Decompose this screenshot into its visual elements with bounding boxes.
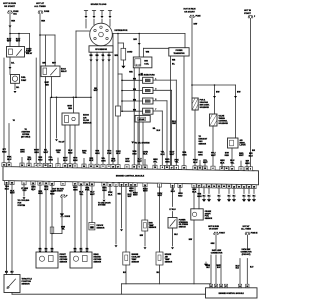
- svg-text:BLK: BLK: [203, 195, 206, 197]
- svg-text:RED: RED: [132, 153, 137, 155]
- air regulator: [228, 138, 239, 148]
- svg-text:W/B: W/B: [172, 60, 176, 62]
- svg-text:BRN: BRN: [73, 160, 78, 162]
- svg-text:WHT: WHT: [90, 194, 95, 196]
- svg-text:BLK: BLK: [253, 195, 256, 197]
- diode D1: [61, 198, 63, 214]
- svg-text:OR START: OR START: [184, 10, 195, 13]
- wire resistor to ECM: [117, 116, 119, 165]
- svg-text:WHT: WHT: [158, 195, 163, 197]
- svg-text:DIODE: DIODE: [65, 216, 71, 218]
- svg-text:BLK: BLK: [108, 194, 113, 196]
- svg-text:6: 6: [139, 167, 140, 169]
- fuse F4: [248, 16, 253, 18]
- svg-text:ENGINE CONTROL MODULE: ENGINE CONTROL MODULE: [116, 176, 145, 178]
- svg-text:W/B: W/B: [129, 72, 133, 74]
- svg-text:W/G: W/G: [45, 248, 48, 250]
- wire branch to relay switch side: [10, 33, 30, 35]
- knock sensor: [91, 185, 93, 222]
- coil output wires: [133, 68, 135, 166]
- svg-text:RED: RED: [178, 195, 183, 197]
- wire W/R rail from fuse F2 to ECM: [39, 14, 41, 164]
- wire B/W rail: [191, 18, 193, 98]
- svg-text:5: 5: [155, 99, 156, 101]
- svg-text:OR START: OR START: [4, 5, 16, 8]
- svg-text:50: 50: [238, 186, 240, 188]
- EGR solenoid output: [194, 110, 196, 166]
- heater resistor R2: [50, 227, 54, 234]
- distributor cap circle: [90, 23, 113, 46]
- ECM top connector pins: [2, 163, 6, 167]
- svg-text:BLU: BLU: [171, 191, 176, 193]
- svg-text:1: 1: [155, 78, 156, 80]
- svg-text:WHT: WHT: [239, 155, 244, 157]
- svg-text:BLK: BLK: [192, 191, 197, 193]
- svg-text:CPS SENSOR: CPS SENSOR: [95, 49, 107, 51]
- wire B/W bus to coil: [138, 34, 140, 58]
- svg-text:36: 36: [144, 167, 146, 169]
- svg-text:33: 33: [90, 166, 92, 168]
- MAF output wires: [64, 125, 66, 164]
- fuel injector 3: [143, 98, 153, 104]
- svg-text:PNK: PNK: [107, 153, 112, 155]
- wire to intake air temp sensor: [159, 187, 161, 252]
- svg-text:B/L: B/L: [11, 63, 15, 65]
- svg-text:YEL: YEL: [230, 163, 235, 165]
- IAC output wires: [137, 122, 139, 165]
- svg-text:TO A/T: TO A/T: [59, 141, 66, 144]
- svg-text:W/R: W/R: [41, 20, 45, 22]
- svg-text:BLU: BLU: [116, 153, 121, 155]
- svg-text:WHT: WHT: [7, 41, 12, 43]
- svg-text:BLU: BLU: [7, 159, 12, 161]
- wire BLK/WHT to coolant temp sensor: [125, 186, 127, 252]
- valve timing control solenoid: [210, 114, 218, 126]
- ECM bottom connector pins: [4, 181, 8, 185]
- branch to ECCS relay: [40, 34, 55, 36]
- svg-text:SPARK PLUGS: SPARK PLUGS: [91, 3, 107, 6]
- svg-text:WHT: WHT: [137, 161, 142, 163]
- svg-text:5: 5: [127, 167, 128, 169]
- svg-text:TRANSISTOR: TRANSISTOR: [174, 52, 186, 55]
- svg-text:ENGINE CONTROL MODULE: ENGINE CONTROL MODULE: [219, 293, 245, 295]
- data link wires to ECM2: [210, 255, 212, 284]
- svg-text:WHT: WHT: [16, 41, 21, 43]
- svg-text:SOLENOID: SOLENOID: [219, 123, 229, 125]
- svg-text:HOT IN RUN: HOT IN RUN: [183, 9, 196, 11]
- ground wires BLK below ECM: [203, 187, 205, 193]
- svg-text:B/W: B/W: [189, 239, 193, 241]
- svg-text:7: 7: [58, 165, 59, 167]
- svg-text:IGN: IGN: [144, 61, 148, 63]
- svg-text:8: 8: [63, 183, 64, 185]
- power transistor box: [169, 48, 189, 56]
- svg-text:WHT: WHT: [143, 191, 148, 193]
- svg-text:B/L: B/L: [172, 64, 175, 66]
- wire stub TO label: [8, 124, 10, 163]
- ECM2 top pins: [209, 284, 212, 288]
- svg-text:5: 5: [40, 165, 41, 167]
- svg-text:W/B: W/B: [95, 55, 99, 57]
- svg-text:59: 59: [83, 166, 85, 168]
- CPS output wires W/R W/B W/L W/G: [90, 52, 92, 164]
- svg-text:SOLENOID: SOLENOID: [200, 107, 210, 109]
- svg-text:RED: RED: [50, 193, 55, 195]
- svg-text:GRN: GRN: [211, 243, 215, 245]
- svg-text:BLU: BLU: [249, 155, 254, 157]
- svg-text:ORN: ORN: [20, 152, 25, 154]
- svg-text:WHT: WHT: [133, 195, 138, 197]
- svg-text:B/W: B/W: [133, 39, 137, 41]
- svg-text:RED: RED: [45, 84, 49, 86]
- svg-text:W/B: W/B: [146, 52, 150, 54]
- svg-text:6: 6: [109, 166, 110, 168]
- wire B/L relay to fuel pump: [9, 57, 11, 75]
- svg-text:B/L: B/L: [16, 87, 20, 89]
- spark plug 1: [84, 10, 87, 12]
- svg-text:3: 3: [250, 169, 251, 171]
- svg-text:WHT: WHT: [170, 154, 175, 156]
- GST wires to ECM2: [239, 259, 241, 285]
- shield ground arrow: [204, 262, 208, 266]
- camshaft position sensor box: [89, 46, 113, 52]
- svg-text:16: 16: [133, 167, 135, 169]
- svg-text:W/B: W/B: [51, 248, 54, 250]
- svg-text:SYSTEM: SYSTEM: [98, 205, 106, 207]
- svg-text:BLU: BLU: [11, 271, 14, 273]
- svg-text:GRN: GRN: [197, 196, 202, 198]
- svg-text:WHT: WHT: [52, 62, 57, 64]
- svg-text:RELAY: RELAY: [61, 70, 67, 73]
- svg-text:SENSOR: SENSOR: [149, 227, 157, 229]
- wire power transistor to coil: [144, 47, 169, 49]
- front heated oxygen sensor: [36, 252, 58, 268]
- svg-text:PUMP: PUMP: [21, 80, 27, 82]
- svg-text:ALL TIMES: ALL TIMES: [241, 227, 251, 230]
- power transistor outputs: [170, 56, 172, 166]
- svg-text:SENSOR: SENSOR: [60, 262, 68, 264]
- crankshaft position sensor: [193, 187, 195, 209]
- svg-text:SENSOR: SENSOR: [97, 227, 105, 229]
- svg-text:ORN: ORN: [101, 160, 106, 162]
- wire WHT/RED to mass air flow sensor: [72, 97, 74, 113]
- intake air temp sensor: [156, 252, 163, 265]
- wire rail A: [35, 58, 37, 164]
- svg-text:BLK: BLK: [218, 195, 221, 197]
- svg-text:BLK: BLK: [243, 195, 246, 197]
- svg-text:YEL: YEL: [56, 152, 61, 154]
- svg-text:COND: COND: [127, 52, 133, 54]
- svg-text:BLU: BLU: [63, 160, 68, 162]
- svg-text:8: 8: [176, 167, 177, 169]
- ground bus from TPS to ECM2: [11, 293, 13, 295]
- svg-text:GRN/: GRN/: [61, 227, 66, 229]
- fuse F5: [61, 195, 66, 197]
- solenoid feeder bus: [192, 84, 236, 86]
- fuel injector 1: [143, 77, 153, 83]
- svg-text:F: F: [254, 16, 255, 18]
- svg-text:FUEL INJECTORS: FUEL INJECTORS: [138, 74, 155, 76]
- fuse F2: [38, 11, 43, 13]
- svg-text:ORN: ORN: [182, 154, 187, 156]
- IAC-AAC valve: [135, 115, 150, 122]
- svg-text:SENSOR: SENSOR: [22, 284, 31, 286]
- svg-text:RELAY: RELAY: [26, 52, 33, 55]
- svg-text:GRN: GRN: [125, 161, 130, 163]
- svg-text:HOT AT: HOT AT: [36, 2, 45, 5]
- wire diode to O2 heater: [61, 217, 63, 234]
- svg-text:FUSE 7: FUSE 7: [219, 233, 225, 235]
- svg-text:BLK: BLK: [206, 267, 210, 269]
- svg-text:SENSOR: SENSOR: [205, 218, 213, 220]
- air regulator output: [231, 148, 233, 167]
- engine control module (lower right): [206, 288, 258, 298]
- svg-text:53: 53: [45, 165, 47, 167]
- wire bus to power transistor: [184, 34, 186, 48]
- wire stub x121.5: [121, 186, 123, 228]
- wire drop to A/T: [56, 97, 58, 138]
- svg-text:OR START: OR START: [53, 190, 64, 193]
- svg-text:SWITCH: SWITCH: [179, 227, 187, 229]
- svg-text:RED: RED: [225, 155, 230, 157]
- svg-text:PNK: PNK: [85, 190, 90, 192]
- svg-text:YEL: YEL: [61, 229, 64, 231]
- svg-text:TO: TO: [13, 120, 16, 122]
- EGR control solenoid: [192, 98, 198, 110]
- svg-text:ALL TIMES: ALL TIMES: [34, 5, 46, 8]
- svg-text:BLU: BLU: [31, 189, 36, 191]
- svg-text:AIR: AIR: [83, 116, 87, 119]
- svg-text:BLK: BLK: [89, 160, 94, 162]
- relay K1 cond pump relay: [7, 47, 25, 58]
- spark plug 4: [108, 10, 111, 12]
- wire coolant sensor to ground bus: [125, 265, 127, 284]
- svg-text:WHT: WHT: [211, 155, 216, 157]
- to A/C system label: [131, 142, 134, 144]
- svg-text:LATOR: LATOR: [240, 144, 247, 147]
- spark plug 3: [100, 10, 103, 12]
- svg-text:W/L: W/L: [102, 55, 105, 57]
- svg-text:RED: RED: [68, 152, 73, 154]
- svg-text:WHT/: WHT/: [217, 265, 222, 267]
- svg-text:LT BLU: LT BLU: [169, 209, 176, 211]
- svg-text:38: 38: [204, 168, 206, 170]
- svg-text:W/B: W/B: [86, 248, 89, 250]
- svg-text:BLK: BLK: [228, 195, 231, 197]
- svg-text:10: 10: [8, 165, 10, 167]
- svg-text:W/R: W/R: [89, 55, 93, 57]
- svg-text:RED: RED: [38, 159, 43, 161]
- svg-text:RED: RED: [23, 190, 27, 192]
- wire crank sensor shield to ECM2: [193, 220, 195, 284]
- wire distributor left branch: [76, 30, 90, 32]
- fuel pump motor: [11, 75, 20, 84]
- spark plug 2: [92, 10, 95, 12]
- condenser C1: [117, 34, 119, 107]
- wire W/B stub: [115, 186, 117, 244]
- svg-text:ORN: ORN: [102, 190, 107, 192]
- throttle position sensor: [4, 275, 20, 293]
- svg-text:W/B: W/B: [118, 194, 122, 196]
- ECCS relay output wires: [45, 77, 47, 164]
- svg-text:53: 53: [166, 167, 168, 169]
- svg-text:GRN: GRN: [165, 161, 170, 163]
- svg-text:SENSOR: SENSOR: [94, 262, 102, 264]
- wire B/R rail hot in start: [250, 18, 252, 167]
- svg-text:YEL: YEL: [79, 194, 84, 196]
- svg-text:RED: RED: [68, 108, 72, 110]
- svg-text:SYSTEM: SYSTEM: [18, 205, 26, 207]
- svg-text:BLU/: BLU/: [235, 266, 239, 268]
- svg-text:BRN: BRN: [34, 152, 39, 154]
- fuse F6 7.5A: [214, 232, 219, 234]
- svg-text:MASS: MASS: [83, 114, 89, 117]
- wire drop to ECM: [49, 97, 51, 164]
- svg-text:W/G: W/G: [107, 55, 111, 57]
- svg-text:SENSOR: SENSOR: [199, 143, 207, 145]
- TPS wires: [6, 184, 8, 274]
- svg-text:POWER: POWER: [176, 50, 183, 52]
- svg-text:15: 15: [183, 167, 185, 169]
- unused bottom pin wire stubs: [32, 184, 34, 190]
- svg-text:B/W: B/W: [237, 92, 241, 94]
- svg-text:37: 37: [171, 167, 173, 169]
- svg-text:3: 3: [103, 166, 104, 168]
- svg-text:START: START: [244, 12, 252, 15]
- svg-text:WHT: WHT: [10, 193, 15, 195]
- wire B/L fuel pump ground: [14, 83, 16, 89]
- svg-text:BLK: BLK: [143, 154, 148, 156]
- svg-text:FUSE: FUSE: [44, 11, 50, 13]
- svg-text:3: 3: [155, 89, 156, 91]
- svg-text:GRN: GRN: [198, 155, 203, 157]
- svg-text:HOT IN: HOT IN: [244, 10, 252, 12]
- svg-text:WHT: WHT: [94, 90, 99, 92]
- svg-text:28: 28: [112, 166, 114, 168]
- svg-text:BLK: BLK: [44, 189, 49, 191]
- svg-text:37: 37: [221, 168, 223, 170]
- wire to CRZ door system: [103, 186, 105, 199]
- svg-text:DISTRIBUTOR: DISTRIBUTOR: [115, 30, 129, 32]
- svg-text:GRN: GRN: [245, 163, 250, 165]
- svg-text:COIL: COIL: [144, 64, 149, 66]
- svg-text:BLK: BLK: [220, 162, 225, 164]
- svg-text:PPL: PPL: [153, 161, 158, 163]
- svg-text:38: 38: [226, 168, 228, 170]
- unused top pin wire stubs: [21, 157, 23, 163]
- fuel injector 2: [143, 88, 153, 94]
- svg-text:38: 38: [69, 166, 71, 168]
- svg-text:RED: RED: [2, 151, 7, 153]
- svg-text:(M/T ONLY): (M/T ONLY): [21, 136, 30, 138]
- svg-text:FUEL: FUEL: [21, 77, 27, 79]
- wire W/R from fuse F1 to cond pump relay: [9, 14, 11, 47]
- svg-text:F: F: [66, 195, 67, 197]
- svg-text:BLK: BLK: [161, 154, 166, 156]
- wire from distributor to ECM: [112, 34, 114, 166]
- wire rail far left: [3, 58, 5, 163]
- mass air flow sensor box: [62, 113, 79, 125]
- svg-text:W/R: W/R: [74, 248, 77, 250]
- svg-text:BLK: BLK: [236, 268, 240, 270]
- svg-text:W/R: W/R: [11, 20, 15, 22]
- svg-text:GRN: GRN: [38, 193, 43, 195]
- svg-text:(FOR GST): (FOR GST): [242, 254, 251, 256]
- fuse F3: [190, 15, 195, 17]
- svg-text:BLU: BLU: [250, 267, 254, 269]
- svg-text:SENSOR: SENSOR: [83, 123, 92, 125]
- svg-text:27: 27: [117, 166, 119, 168]
- ignition coil: [133, 57, 152, 68]
- svg-text:B/W: B/W: [216, 92, 220, 94]
- svg-text:WHT: WHT: [128, 196, 133, 198]
- feeder bus from ECCS relay: [52, 96, 92, 98]
- svg-text:BLU: BLU: [111, 161, 116, 163]
- svg-text:35: 35: [49, 165, 51, 167]
- svg-text:BLK: BLK: [174, 234, 178, 236]
- fuse F1 15A: [8, 11, 13, 13]
- svg-text:21: 21: [3, 165, 5, 167]
- svg-text:GRN: GRN: [48, 160, 53, 162]
- svg-text:WHT: WHT: [203, 162, 208, 164]
- svg-text:26: 26: [21, 165, 23, 167]
- valve timing solenoid output: [212, 126, 214, 167]
- svg-text:BLK: BLK: [5, 188, 10, 190]
- svg-text:BLK: BLK: [80, 248, 83, 250]
- svg-text:15A: 15A: [13, 12, 17, 15]
- front O2 sensor wires: [39, 185, 41, 251]
- svg-text:OR START: OR START: [209, 227, 219, 230]
- svg-text:CONNECTOR: CONNECTOR: [211, 252, 223, 254]
- svg-text:B/W: B/W: [194, 24, 198, 26]
- svg-text:BLK: BLK: [208, 195, 211, 197]
- distributor rotor contacts: [94, 29, 96, 31]
- svg-text:B/W: B/W: [42, 62, 46, 64]
- engine control module main connector bar: [3, 167, 259, 185]
- svg-text:15: 15: [246, 169, 248, 171]
- svg-text:WHT: WHT: [44, 152, 49, 154]
- svg-text:28: 28: [154, 167, 156, 169]
- svg-text:BLK: BLK: [248, 195, 251, 197]
- svg-text:B/R: B/R: [252, 150, 256, 152]
- wire B/W to air regulator: [235, 85, 237, 138]
- svg-text:FUSE 15: FUSE 15: [251, 233, 258, 235]
- engine coolant temp sensor: [123, 252, 130, 265]
- svg-text:W/R: W/R: [39, 248, 42, 250]
- svg-text:26: 26: [231, 168, 233, 170]
- svg-text:7: 7: [155, 109, 156, 111]
- svg-text:BLU: BLU: [157, 130, 161, 132]
- svg-text:BLK: BLK: [5, 271, 9, 273]
- svg-text:GRN: GRN: [95, 153, 100, 155]
- svg-text:BLK: BLK: [27, 159, 32, 161]
- svg-text:YEL: YEL: [82, 153, 87, 155]
- rear O2 sensor wires: [74, 185, 76, 250]
- dropping resistor: [116, 106, 121, 116]
- svg-text:FUSE: FUSE: [196, 16, 202, 18]
- svg-text:YEL: YEL: [175, 162, 180, 164]
- svg-text:B/W: B/W: [140, 235, 144, 237]
- svg-text:TO A/C SYSTEM: TO A/C SYSTEM: [135, 141, 150, 144]
- ignition primary bus: [112, 33, 185, 35]
- svg-text:GRN: GRN: [73, 190, 78, 192]
- wire intake sensor to ground bus: [159, 265, 161, 284]
- svg-text:BLU: BLU: [193, 162, 198, 164]
- fuse F7 15A: [245, 232, 250, 234]
- ECCS relay: [41, 66, 60, 77]
- svg-text:HOT IN RUN: HOT IN RUN: [3, 3, 16, 5]
- svg-text:BLU: BLU: [217, 267, 221, 269]
